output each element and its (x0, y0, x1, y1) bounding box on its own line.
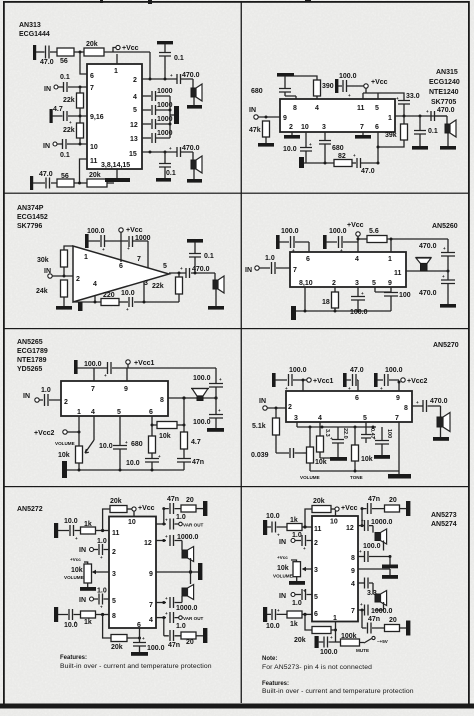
capacitor 1.0 (259, 262, 290, 274)
svg-text:1000.0: 1000.0 (371, 608, 393, 615)
wire 1000 to pin7 (147, 241, 149, 268)
capacitor 47n bottom (362, 623, 385, 634)
svg-text:1k: 1k (84, 521, 92, 528)
capacitor 470.0 bottom (441, 280, 455, 284)
svg-text:22k: 22k (152, 283, 164, 290)
svg-text:1000: 1000 (135, 235, 151, 242)
svg-text:20: 20 (186, 639, 194, 646)
resistor 1k bottom (287, 611, 302, 618)
svg-text:3: 3 (314, 567, 318, 574)
svg-text:20k: 20k (294, 637, 306, 644)
capacitor 47n top (164, 503, 181, 514)
divider row 3/4 (3, 486, 469, 487)
top rail (77, 367, 112, 369)
svg-text:IN: IN (279, 593, 286, 600)
svg-text:IN: IN (279, 539, 286, 546)
wire 1k to pin6 (302, 613, 312, 615)
svg-text:100.0: 100.0 (289, 367, 307, 374)
svg-text:1k: 1k (290, 517, 298, 524)
capacitor 0.1 bottom-right (159, 152, 171, 178)
terminal VAR OUT 2 (179, 616, 183, 620)
capacitor 680 top (279, 89, 296, 100)
wire (79, 138, 81, 144)
svg-text:+: + (285, 386, 288, 391)
svg-text:+: + (170, 73, 173, 78)
svg-text:+: + (330, 436, 333, 441)
wire (36, 51, 45, 53)
terminal +Vcc (127, 508, 132, 510)
capacitor 100.0 group3 (377, 374, 399, 386)
svg-text:+: + (127, 246, 130, 251)
wire pins 8,10 down (304, 287, 306, 311)
resistor 390 (314, 80, 321, 96)
svg-text:Built-in over - current and te: Built-in over - current and temperature … (262, 688, 414, 695)
svg-text:IN: IN (245, 267, 252, 274)
wire pin6 drop (80, 52, 87, 74)
svg-text:AN5270: AN5270 (433, 342, 459, 349)
ground under 100 (374, 455, 390, 459)
svg-text:AN315: AN315 (436, 69, 458, 76)
wire pin 12 (358, 525, 364, 527)
capacitor 3.3 pin4 (365, 578, 374, 595)
svg-text:13: 13 (130, 136, 138, 143)
op-amp U3 triangle (73, 246, 169, 302)
svg-text:11: 11 (90, 158, 98, 165)
svg-text:5.6: 5.6 (369, 228, 379, 235)
wire bottom chain (304, 162, 334, 164)
resistor 82 (334, 160, 352, 167)
pin 1 stem (78, 416, 80, 446)
svg-text:+: + (104, 373, 107, 378)
resistor 56 bottom (57, 179, 74, 187)
ground stub on rail (78, 302, 83, 311)
svg-text:1: 1 (84, 254, 88, 261)
svg-text:47.0: 47.0 (39, 171, 53, 178)
ground for 100.0 (85, 234, 89, 248)
svg-text:+: + (303, 546, 306, 551)
svg-text:100.0: 100.0 (350, 309, 368, 316)
ground under speaker (447, 133, 449, 146)
svg-text:+: + (360, 602, 363, 607)
wire Vcc2 to pin1 (67, 431, 79, 433)
ground input top (54, 523, 58, 538)
svg-text:47n: 47n (168, 642, 180, 649)
svg-text:+: + (348, 93, 351, 98)
ground under speaker (440, 427, 442, 437)
speaker SP (214, 273, 216, 280)
svg-text:0.039: 0.039 (251, 452, 269, 459)
svg-text:9: 9 (396, 395, 400, 402)
ground pin 9 (389, 569, 391, 575)
wire (74, 51, 84, 53)
wire left rail (79, 87, 81, 93)
svg-text:2: 2 (112, 549, 116, 556)
svg-text:+: + (330, 635, 333, 640)
svg-text:1.0: 1.0 (176, 623, 186, 630)
resistor 18 (334, 287, 336, 292)
pin 9 stem (126, 368, 128, 381)
svg-text:+: + (359, 549, 362, 554)
wire (74, 182, 87, 184)
wire 39k to pin6 (378, 140, 404, 147)
wire pin5 rail to 33.0 (378, 93, 404, 100)
svg-text:1: 1 (77, 409, 81, 416)
ground under speaker (215, 289, 217, 306)
wire 30k to IN (63, 267, 65, 276)
capacitor 10.0 (129, 297, 133, 307)
terminal +Vcc (113, 48, 116, 53)
junction top chain (361, 507, 364, 510)
svg-text:100: 100 (386, 429, 392, 438)
svg-text:11: 11 (357, 105, 365, 112)
capacitor 1000 (118, 236, 148, 247)
divider row 2/3 (3, 328, 469, 329)
svg-text:8: 8 (404, 405, 408, 412)
svg-text:1.0: 1.0 (176, 514, 186, 521)
capacitor 0.1 (189, 242, 201, 273)
resistor 22k lower (77, 123, 84, 138)
svg-text:+: + (100, 605, 103, 610)
resistor 20k bottom (87, 179, 107, 187)
svg-text:+: + (353, 153, 356, 158)
svg-text:10k: 10k (361, 456, 373, 463)
scan speck 1 (100, 0, 103, 3)
wire pin6 down (377, 132, 379, 163)
svg-text:10.0: 10.0 (64, 518, 78, 525)
ground big bottom (388, 474, 411, 479)
junction (79, 115, 82, 118)
svg-text:1.0: 1.0 (41, 387, 51, 394)
capacitor 47.0 bottom (33, 178, 57, 189)
svg-text:9: 9 (388, 280, 392, 287)
ground under 220 (330, 457, 347, 461)
svg-text:+Vcc: +Vcc (347, 222, 364, 229)
speaker SP (446, 116, 448, 124)
svg-text:8: 8 (293, 105, 297, 112)
svg-text:100.0: 100.0 (193, 419, 211, 426)
svg-text:12: 12 (144, 540, 152, 547)
svg-text:+Vcc: +Vcc (70, 557, 81, 562)
ground cap group1 (272, 373, 276, 387)
capacitor 680 pin3 (319, 132, 331, 163)
wire 5.1k down (275, 435, 277, 453)
svg-text:IN: IN (79, 547, 86, 554)
svg-text:+: + (340, 248, 343, 253)
svg-text:1k: 1k (84, 619, 92, 626)
svg-text:+: + (69, 120, 72, 125)
svg-text:AN374P: AN374P (17, 205, 44, 212)
capacitor 33.0 (398, 101, 410, 117)
svg-text:3: 3 (294, 415, 298, 422)
capacitor 100.0 right-top (209, 384, 223, 388)
capacitor 100 pin9 (375, 287, 391, 293)
svg-text:2: 2 (332, 280, 336, 287)
pot to rail (78, 463, 80, 470)
svg-text:82: 82 (338, 153, 346, 160)
svg-text:VOLUME: VOLUME (64, 575, 84, 580)
wire pin 8 out (412, 405, 423, 407)
svg-text:100.0: 100.0 (147, 645, 165, 652)
wire chain to varout1 (163, 509, 165, 524)
ground mid-left (50, 109, 53, 123)
ground 100.0 bottom (315, 636, 319, 648)
wire 1k to pin 11 (96, 530, 110, 532)
svg-text:5: 5 (163, 263, 167, 270)
svg-text:47.0: 47.0 (350, 367, 364, 374)
svg-text:0.1: 0.1 (204, 253, 214, 260)
ground bottom-left (62, 461, 67, 478)
svg-text:12: 12 (130, 122, 138, 129)
ground top-right (157, 41, 173, 44)
svg-text:AN5260: AN5260 (432, 223, 458, 230)
svg-text:AN5274: AN5274 (431, 521, 457, 528)
potentiometer 10k VOLUME (309, 427, 311, 447)
svg-text:1000.0: 1000.0 (371, 519, 393, 526)
svg-text:SK7796: SK7796 (17, 223, 42, 230)
svg-text:10.0: 10.0 (266, 623, 280, 630)
ground under 0.1 (412, 146, 428, 150)
svg-text:9: 9 (149, 571, 153, 578)
pin 4 stem (93, 416, 95, 440)
wire pin11 (80, 159, 88, 183)
svg-text:20k: 20k (111, 644, 123, 651)
svg-text:47n: 47n (167, 496, 179, 503)
ground under pot (87, 583, 89, 587)
page border bottom (0, 704, 474, 709)
svg-text:ECG1452: ECG1452 (17, 214, 48, 221)
wire 5.6 to pin1 and right (387, 239, 448, 252)
svg-text:+: + (102, 247, 105, 252)
svg-text:+: + (380, 386, 383, 391)
svg-text:VAR OUT: VAR OUT (183, 616, 204, 621)
svg-text:+: + (158, 454, 161, 459)
resistor 20k bottom (312, 627, 331, 634)
svg-text:10k: 10k (71, 567, 83, 574)
svg-text:15: 15 (129, 151, 137, 158)
svg-text:4: 4 (149, 617, 153, 624)
speaker SP1 (182, 550, 188, 558)
svg-text:470.0: 470.0 (182, 145, 200, 152)
svg-text:1.0: 1.0 (97, 538, 107, 545)
wire pin 15 (142, 151, 177, 153)
svg-text:47.0: 47.0 (40, 59, 54, 66)
svg-text:9: 9 (124, 386, 128, 393)
svg-text:+: + (292, 248, 295, 253)
svg-text:4: 4 (351, 581, 355, 588)
ground cap group2 (343, 373, 347, 387)
svg-text:470.0: 470.0 (192, 266, 210, 273)
terminal +Vcc1 (307, 378, 311, 382)
right rail (447, 239, 449, 252)
divider vertical center (241, 2, 242, 703)
wiper arrow pin 3 (305, 568, 312, 570)
svg-text:18: 18 (322, 299, 330, 306)
wire sp2 to pin7 (175, 596, 183, 603)
terminal +Vcc1 (126, 360, 130, 364)
svg-text:4: 4 (318, 415, 322, 422)
svg-text:+: + (165, 518, 168, 523)
svg-text:10: 10 (90, 144, 98, 151)
wire (104, 51, 150, 53)
svg-text:0.1: 0.1 (166, 170, 176, 177)
svg-text:+Vcc: +Vcc (371, 79, 388, 86)
wire 390 to pin4 (316, 96, 318, 99)
svg-text:56: 56 (60, 58, 68, 65)
wire pin 4 (156, 617, 166, 619)
svg-text:0.1: 0.1 (60, 74, 70, 81)
ground under pot (296, 577, 298, 581)
wire pin 9 (156, 571, 198, 573)
svg-text:10.0: 10.0 (121, 290, 135, 297)
svg-text:680: 680 (131, 441, 143, 448)
wire to 47n bottom (163, 618, 165, 636)
svg-text:+: + (218, 408, 221, 413)
resistor 20k top (84, 48, 104, 56)
resistor 22k (178, 273, 180, 277)
wire pin 12 (156, 540, 166, 542)
svg-text:6: 6 (375, 124, 379, 131)
svg-text:100: 100 (399, 292, 411, 299)
svg-text:+: + (348, 386, 351, 391)
svg-text:3: 3 (355, 280, 359, 287)
bottom rail (296, 310, 391, 312)
svg-text:47.0: 47.0 (361, 168, 375, 175)
svg-text:2: 2 (288, 404, 292, 411)
svg-text:20: 20 (389, 617, 397, 624)
wire to 390 (294, 76, 317, 80)
pin 3 stem (143, 281, 145, 302)
svg-text:20: 20 (389, 497, 397, 504)
IC U8 AN5273 body (312, 516, 358, 622)
capacitor 1.0 varout1 (170, 519, 179, 530)
potentiometer 10k VOLUME (293, 562, 301, 577)
svg-text:IN: IN (259, 398, 266, 405)
svg-text:5: 5 (375, 105, 379, 112)
svg-text:AN313: AN313 (19, 22, 41, 29)
wire joining 1000 caps (169, 96, 171, 138)
ground under 47k (265, 137, 267, 143)
svg-text:+Vcc: +Vcc (122, 45, 139, 52)
ground right rail (440, 304, 456, 308)
pin 6 stem (151, 416, 153, 436)
svg-text:Features:: Features: (60, 655, 87, 661)
svg-text:+Vcc1: +Vcc1 (134, 360, 155, 367)
resistor 22k upper (77, 93, 84, 108)
ground input bottom (54, 607, 58, 622)
svg-text:30k: 30k (37, 257, 49, 264)
svg-text:+Vcc: +Vcc (277, 555, 288, 560)
capacitor 1.0 input (39, 394, 61, 406)
capacitor 0.1 (414, 116, 426, 146)
capacitor 100.0 bottom (319, 637, 336, 648)
resistor 20 bottom (385, 625, 400, 632)
resistor 24k (61, 280, 68, 297)
speaker SP (440, 406, 442, 417)
ground under IC (116, 169, 118, 178)
capacitor 47.0 top-left (46, 46, 50, 59)
ground for cap1 (276, 235, 280, 249)
wire 20k to cap node (127, 637, 140, 639)
svg-text:IN: IN (23, 393, 30, 400)
capacitor 100.0 mid (326, 236, 358, 248)
svg-text:12: 12 (346, 525, 354, 532)
capacitor 47.0 group2 (346, 374, 358, 386)
svg-text:6: 6 (119, 263, 123, 270)
ground bottom chain (196, 635, 203, 637)
vertical rail speakers (190, 566, 192, 578)
svg-text:Note:: Note: (262, 656, 277, 662)
svg-text:+: + (373, 436, 376, 441)
svg-text:+: + (100, 555, 103, 560)
svg-text:+: + (219, 377, 222, 382)
pin 7 stem (93, 368, 95, 381)
capacitor 0.1 input2 (57, 139, 87, 149)
wire IN to pin2 (52, 275, 73, 277)
speaker SP1 (192, 79, 194, 88)
capacitor 1.0 input2 (94, 594, 110, 605)
svg-text:47n: 47n (192, 459, 204, 466)
svg-text:2: 2 (289, 124, 293, 131)
svg-text:+: + (126, 307, 129, 312)
ground bar bottom-left (291, 306, 296, 320)
svg-text:100.0: 100.0 (339, 73, 357, 80)
svg-text:5: 5 (363, 415, 367, 422)
svg-text:470.0: 470.0 (182, 72, 200, 79)
svg-text:1k: 1k (290, 621, 298, 628)
svg-text:YD5265: YD5265 (17, 366, 42, 373)
terminal +Vcc (331, 508, 335, 510)
capacitor 10.0 top input (267, 522, 287, 533)
wire to 47n bottom (361, 610, 363, 628)
svg-text:680: 680 (332, 145, 344, 152)
svg-text:0.1: 0.1 (428, 128, 438, 135)
resistor 20k top (103, 509, 110, 531)
wire pin8 to 20k bottom (103, 615, 111, 639)
wire chain to pin 12 (361, 509, 363, 526)
svg-text:NTE1240: NTE1240 (429, 89, 459, 96)
svg-text:47k: 47k (249, 127, 261, 134)
svg-text:5: 5 (372, 280, 376, 287)
speaker SP2 (375, 594, 381, 602)
svg-text:10: 10 (301, 124, 309, 131)
wire sp1 right (190, 558, 192, 566)
ground bar bottom-left (299, 157, 304, 168)
capacitor 220 vertical (332, 427, 344, 458)
svg-text:6: 6 (149, 409, 153, 416)
svg-text:5.1k: 5.1k (252, 423, 266, 430)
ground bottom chain (400, 627, 407, 629)
svg-text:20k: 20k (313, 498, 325, 505)
svg-text:6: 6 (306, 256, 310, 263)
capacitor 0.1 input1 (58, 82, 87, 92)
ground bar right of 1000 caps (170, 114, 174, 116)
resistor 47k (263, 121, 270, 137)
svg-text:11: 11 (394, 270, 402, 277)
capacitor 10.0 pin5 (113, 416, 127, 470)
capacitor 100.0 right-bottom (209, 415, 223, 419)
svg-text:100.0: 100.0 (281, 228, 299, 235)
wire pin 7 (358, 609, 364, 611)
wire Vcc down pin10 (335, 511, 337, 516)
capacitor 4.7 (53, 111, 88, 121)
resistor 5.1k (275, 408, 277, 418)
capacitor 47.0 (357, 158, 378, 168)
wire pin 1 (395, 115, 447, 117)
svg-text:5: 5 (314, 594, 318, 601)
speaker SP down (192, 389, 208, 397)
wire (352, 162, 356, 164)
svg-text:20: 20 (186, 497, 194, 504)
